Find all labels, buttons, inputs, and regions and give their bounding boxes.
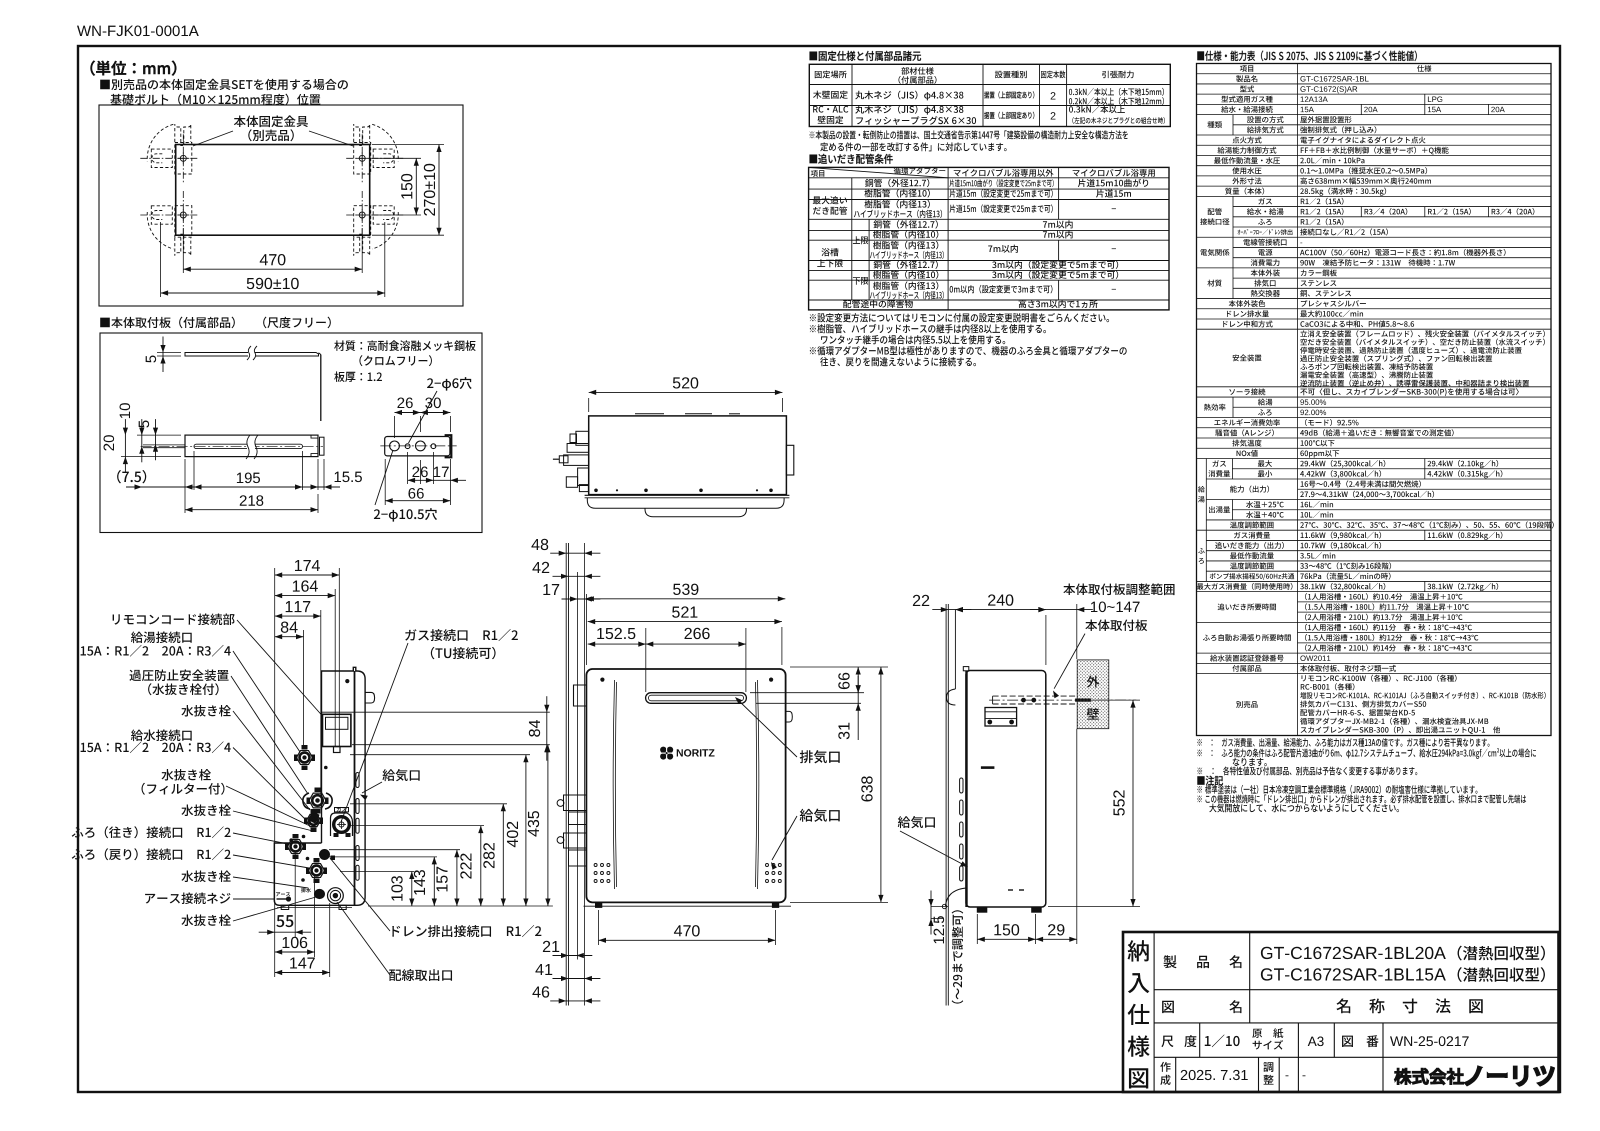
remote cord connection box <box>323 714 351 746</box>
break marks on front view <box>247 438 255 454</box>
fixing table row2 (RC・ALC壁固定) <box>813 106 848 113</box>
rows 追いだき所要時間 <box>1218 603 1276 610</box>
label 水抜き栓 (3) <box>181 871 231 883</box>
end view right cap (thick) <box>445 435 452 457</box>
front panel crease right <box>756 680 759 889</box>
side air slots (back) <box>960 778 963 793</box>
note below fixing table <box>810 130 1128 139</box>
top view left port stubs <box>576 431 589 445</box>
bracket box on body back <box>985 708 1017 727</box>
right drain hole grid <box>766 864 769 867</box>
drain outlet port <box>320 850 330 860</box>
dimension 5 (slot) <box>155 419 157 460</box>
header 固定仕様と付属部品諸元 <box>810 51 921 61</box>
dimension 143 <box>433 857 435 906</box>
top view inner bulge <box>645 508 747 516</box>
leader to top-right bracket <box>309 131 353 146</box>
label ~29まで調整可 (rotated) <box>952 910 964 1003</box>
dimensions 26 30 (top) <box>394 416 396 438</box>
dimension 435 <box>547 745 549 906</box>
height ref lines <box>322 711 550 713</box>
dimension (7.5) <box>126 486 201 488</box>
hole 4 (φ6) <box>431 444 436 449</box>
bolt bracket top-right <box>354 143 371 175</box>
handle bar mark <box>981 766 995 769</box>
dimension 5 (plate thickness) <box>157 352 181 354</box>
title block row lines <box>1154 989 1558 991</box>
front top screws <box>600 678 604 682</box>
dimension 222 <box>480 826 482 906</box>
row 製品名 <box>1236 75 1257 82</box>
row 質量 <box>1225 188 1264 195</box>
piping row: 配管途中の障害物 <box>843 300 913 308</box>
plate side view (top) <box>185 353 319 357</box>
small drain plug <box>315 889 325 898</box>
dimension 117 <box>275 615 321 617</box>
fixing table grid <box>809 64 1170 126</box>
row 安全装置 (multi-line) <box>1233 354 1262 361</box>
left tab lines <box>143 444 185 446</box>
rows ふろ自動お湯張り所要時間 <box>1203 634 1291 641</box>
title block column 納入仕様図 <box>1153 932 1155 1092</box>
label 排気口 <box>800 750 840 763</box>
row 型式適用ガス種 <box>1424 94 1426 114</box>
注記 header <box>1197 776 1223 786</box>
label アース接続ネジ <box>145 893 230 905</box>
units note (単位:mm) <box>91 61 177 76</box>
rows 材質 <box>1232 268 1234 299</box>
small fitting dots <box>324 766 328 770</box>
bolt bracket top-left <box>175 143 192 175</box>
label 本体取付板調整範囲 10~147 <box>1063 583 1174 595</box>
label 2-φ6穴 with leader <box>427 377 472 391</box>
leader to top-left bracket <box>193 131 233 146</box>
label 給気口 (side view) <box>898 816 935 828</box>
dimension 270±10 (outer vertical) <box>372 144 444 146</box>
top view right tab <box>786 445 793 475</box>
row NOx値 <box>1237 450 1258 457</box>
dimension 12.5 (feet height) <box>930 891 932 935</box>
plate front view body <box>185 435 318 457</box>
row 最低作動流量・水圧 <box>1214 157 1280 164</box>
dimension 48 <box>550 552 600 554</box>
hole 2 (φ6) <box>405 444 410 449</box>
row 本体外装色 <box>1229 300 1265 307</box>
header 追いだき配管条件 <box>810 154 893 164</box>
front panel crease left <box>613 680 616 889</box>
front right edge tab <box>786 711 793 722</box>
NORITZ logo text <box>677 749 715 756</box>
label 水抜き栓 (1) <box>181 705 231 717</box>
row 最大ガス消費量 <box>1197 583 1293 590</box>
label 2-φ10.5穴 with leader <box>374 508 437 522</box>
front feet <box>596 903 602 908</box>
side view hook line <box>954 610 956 689</box>
air intake slots (bottom view) <box>356 773 359 788</box>
bottom view right tab <box>365 692 375 703</box>
rows 電気関係 <box>1232 237 1234 268</box>
dimensions 152.5 / 266 <box>645 628 647 692</box>
gas connection port <box>331 813 353 836</box>
plate slot <box>194 444 303 448</box>
top view outline <box>589 416 787 495</box>
dimension 638 (height) <box>790 901 888 903</box>
company logo 株式会社ノーリツ <box>1395 1068 1464 1084</box>
title block bottom row (作成/調整/logo) <box>1175 1057 1177 1092</box>
side view back edge (thick) <box>965 671 967 908</box>
top view bottom flange <box>585 494 790 496</box>
notes below spec table <box>1197 738 1489 747</box>
bolt bracket bottom-right <box>354 206 371 238</box>
row 排気温度 <box>1232 440 1261 447</box>
front left pipe stubs <box>574 685 587 706</box>
right end bent tab <box>320 437 325 455</box>
dimension 17 <box>562 598 601 600</box>
dimension 150 (bolt vertical pitch) <box>372 157 421 159</box>
dimension 21 (bottom) <box>553 955 593 957</box>
dimension 106 <box>275 951 315 953</box>
dimension 590±10 (outer pitch) <box>160 222 162 297</box>
dimension 42 <box>553 575 601 577</box>
dimension 103 <box>411 872 413 907</box>
dimension 195 (slot length) <box>193 451 195 490</box>
exhaust vent slot <box>646 693 747 704</box>
bottom view inner seam line <box>354 671 356 905</box>
pressure relief / drain valve assembly <box>309 793 326 808</box>
dimension 84 <box>275 636 304 638</box>
plate end view <box>385 437 450 456</box>
bath return valve (ふろ戻り) <box>309 864 325 878</box>
section header: mounting plate <box>100 317 331 329</box>
row 付属部品 <box>1232 665 1261 672</box>
row 使用水圧 <box>1232 167 1261 174</box>
diagram box 1 frame <box>99 105 463 306</box>
wall-side vertical pair <box>945 604 947 1006</box>
dimension 282 <box>502 804 504 906</box>
section header: base bolt positions <box>100 79 348 90</box>
left drain hole grid <box>594 864 597 867</box>
label 配線取出口 <box>389 969 452 981</box>
row 給湯能力制御方式 <box>1218 147 1277 154</box>
dimension 15.5 <box>317 459 319 490</box>
wall box (外壁) with dotted hatch <box>1077 660 1109 729</box>
material note <box>334 340 476 351</box>
notes below piping table <box>810 313 1109 322</box>
dimension 55 <box>259 931 312 933</box>
document code WN-FJK01-0001A <box>77 26 199 37</box>
dimension 218 (plate length) <box>184 459 186 513</box>
dim ref extension lines (top) <box>274 568 276 977</box>
side view body <box>966 671 1046 908</box>
spec table outer frame <box>1197 64 1552 736</box>
bottom view top screw <box>345 679 349 683</box>
top view front bulge <box>587 498 784 509</box>
label 本体固定金具（別売品） <box>234 115 308 127</box>
end view center line <box>380 445 456 447</box>
dimension 520 (top view width) <box>588 398 590 412</box>
dimension 31 <box>857 676 859 740</box>
dimension 164 <box>275 595 336 597</box>
row ドレン中和方式 <box>1223 320 1272 327</box>
spec table main vertical divider <box>1297 64 1299 736</box>
side view top tab <box>963 667 969 671</box>
row 騒音値 <box>1215 429 1274 436</box>
row 項目/仕様 <box>1240 65 1253 72</box>
fixing table header texts <box>815 71 847 79</box>
dimension 41 (bottom) <box>553 978 601 980</box>
給湯 group rows <box>1205 459 1207 531</box>
mounting plate (dashed, through wall) <box>993 695 1076 697</box>
header 仕様・能力表 <box>1197 51 1416 62</box>
row 外形寸法 <box>1232 177 1261 184</box>
bolt bracket bottom-left <box>175 206 192 238</box>
title block 尺度 row <box>1199 1023 1201 1057</box>
piping rows: 浴槽上下限 group <box>821 248 838 256</box>
side small dashes <box>1008 889 1013 891</box>
label 水抜き栓 (2) <box>181 805 231 817</box>
dimension 22 / 240 / 10~147 <box>1045 615 1047 665</box>
label 給湯接続口 15A:R1/2 20A:R3/4 <box>131 632 192 644</box>
dimension 402 <box>525 755 527 906</box>
bottom view outline <box>274 667 365 905</box>
row 給水装置認証登録番号 <box>1210 655 1283 662</box>
side feet <box>977 907 987 912</box>
hole 1 (φ10.5) <box>390 441 400 451</box>
label ドレン排出接続口 R1/2 <box>392 925 541 937</box>
label 本体取付板 with leader <box>1085 620 1147 632</box>
plate side view bend (vertical leg) <box>320 355 322 422</box>
plate end in wall (thick) <box>1075 698 1091 701</box>
row 別売品 (multi-line) <box>1236 701 1257 708</box>
hole 3 (φ10.5) <box>416 441 426 451</box>
dimension 521 <box>781 627 783 665</box>
row 型式 <box>1240 85 1254 92</box>
rows 配管接続口径 <box>1232 196 1234 237</box>
label 給気口 (bottom view) <box>382 769 419 781</box>
row 給水・給湯接続 <box>1360 104 1362 114</box>
wall reference lines (front view) <box>565 543 567 1006</box>
dimension 66 <box>384 459 386 505</box>
earth screw <box>277 898 288 900</box>
label ガス接続口 R1/2 (TU接続可) <box>405 629 518 641</box>
dimension 470 (bolt horizontal pitch) <box>182 228 184 273</box>
top view bottom screw dots <box>594 489 598 493</box>
NORITZ logo mark <box>660 747 666 753</box>
dimension 10 <box>137 434 181 436</box>
hot water outlet valve (給湯接続口) <box>297 751 313 765</box>
label ふろ（戻り）接続口 R1/2 <box>72 848 231 860</box>
spec table horizontal lines <box>1197 73 1552 75</box>
row ドレン排水量 <box>1227 310 1269 317</box>
label リモコンコード接続部 <box>113 614 235 626</box>
water inlet valve (給水接続口) <box>307 814 321 826</box>
label 給気口 (front) <box>800 809 840 822</box>
dimension 552 <box>1091 699 1140 701</box>
piping table grid <box>809 167 1169 310</box>
unit base outline <box>176 145 370 236</box>
front view body <box>586 669 785 902</box>
row ソーラ接続 <box>1229 388 1265 395</box>
top view vent marks <box>635 413 664 415</box>
right edge notches <box>311 435 318 457</box>
label 給水接続口 15A:R1/2 20A:R3/4 <box>131 730 192 742</box>
piping rows: 最大追いだき配管 group <box>813 196 847 204</box>
side bottom drain curve <box>946 888 967 906</box>
dimension 539 <box>585 594 587 665</box>
dimension 84 (vertical) <box>546 696 548 761</box>
title block 図名 row <box>1162 1001 1174 1013</box>
wiring outlet grommet <box>328 888 344 904</box>
dimension 147 <box>275 972 330 974</box>
dimension 20 (plate height) <box>121 456 181 458</box>
title block 製品名 row <box>1249 932 1251 1023</box>
dimension 470 (feet pitch) <box>598 910 600 945</box>
slot center line (dash-dot) <box>141 445 323 447</box>
diagram box 2 frame <box>100 333 482 533</box>
label 過圧防止安全装置（水抜き栓付） <box>129 669 228 681</box>
row エネルギー消費効率 <box>1214 419 1280 426</box>
label 水抜き栓（フィルター付） <box>161 769 211 781</box>
plate bolts <box>1021 698 1026 703</box>
label ふろ（往き）接続口 R1/2 <box>72 826 231 838</box>
row 点火方式 <box>1232 137 1261 144</box>
break marks on side view <box>248 349 255 359</box>
dimensions 26 17 (bottom) <box>407 452 409 484</box>
piping table verticals <box>947 167 949 310</box>
bottom ext lines <box>294 852 296 937</box>
rows 種類 <box>1232 115 1234 135</box>
ふろ group rows <box>1205 530 1207 581</box>
bath outgoing valve (ふろ往き) <box>288 840 304 854</box>
label 水抜き栓 (4) <box>181 915 231 927</box>
dimension 66 (vent from top) <box>750 692 864 694</box>
title block outer frame <box>1123 932 1559 1092</box>
fixing table row1 (木壁固定) <box>813 91 848 99</box>
dimension 174 <box>275 574 340 576</box>
dimension 157 <box>456 850 458 906</box>
plate center line (dash-dot) <box>989 699 1136 701</box>
dimension 46 (bottom) <box>550 1000 600 1002</box>
feet under bottom view <box>281 905 289 909</box>
rows 熱効率 <box>1232 397 1234 417</box>
piping table header diagonal <box>809 167 949 177</box>
dimensions 150 / 29 <box>976 914 978 944</box>
